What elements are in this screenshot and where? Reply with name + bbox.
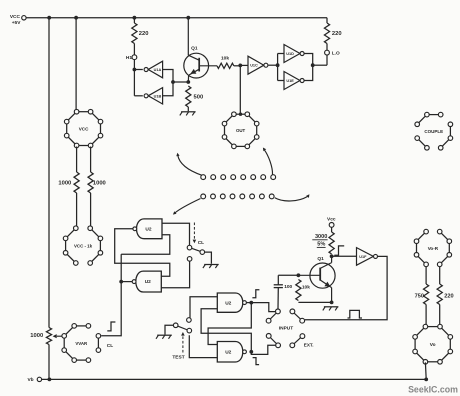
wire U1F output feedback: [305, 256, 387, 319]
arrow CL dashed (latch-A): [193, 223, 205, 247]
inverter U1E: [284, 72, 304, 90]
wire VCC to 1000 resistors: [77, 147, 91, 173]
svg-text:H1: H1: [126, 55, 132, 61]
wire Vcc to 3000: [331, 227, 333, 232]
NAND U2 latch-A bottom (mirrored): [132, 271, 161, 292]
IC COUPLE socket (octagon): [415, 112, 453, 150]
wire junction to Q1 emitter node: [173, 81, 188, 83]
pulse symbol square (feedback): [348, 310, 363, 318]
wire 1000 resistors to VCC-1k: [77, 193, 91, 226]
node junction latchB bottom output: [249, 350, 253, 354]
IC OUT socket (octagon): [222, 112, 259, 149]
svg-text:VCC: VCC: [79, 126, 89, 131]
node VCC +5V supply terminal: [10, 14, 26, 26]
ground TEST switch: [156, 335, 172, 339]
svg-text:U1E: U1E: [286, 79, 294, 83]
label CL strap: [107, 343, 113, 349]
wire latchB bottom lower input to TEST: [189, 335, 217, 357]
wire 750 to Vo: [425, 305, 427, 327]
wire base node to cap: [278, 274, 298, 276]
inverter U1B (points left): [144, 88, 163, 104]
node junction VCC IC drop: [74, 16, 78, 20]
wire L.O to 220: [326, 44, 328, 51]
wire latchB top out to S1: [251, 303, 275, 312]
svg-text:U1D: U1D: [286, 52, 294, 56]
wire split to U1D/U1E inputs: [278, 54, 284, 81]
pulse symbol rising (Q1 collector): [334, 246, 344, 255]
wire U1C output to split node: [268, 64, 277, 66]
svg-text:5%: 5%: [317, 242, 325, 248]
svg-text:VCC: VCC: [10, 14, 21, 20]
switch CL latch-A: [187, 245, 204, 261]
svg-text:220: 220: [139, 31, 149, 37]
IC Vo socket (octagon): [413, 324, 453, 364]
svg-text:CL: CL: [198, 240, 204, 246]
wire U1B right side to junction: [163, 82, 173, 96]
svg-text:U2: U2: [145, 227, 151, 233]
svg-text:L.O: L.O: [332, 50, 340, 56]
svg-text:1000: 1000: [30, 333, 43, 339]
svg-text:U1A: U1A: [154, 68, 162, 72]
ground latch-A switch: [203, 265, 219, 269]
transistor Q1 (top): [184, 18, 217, 82]
node junction latchB top output: [249, 301, 253, 305]
arrow row2 to latch: [173, 199, 201, 215]
switch S4 EXT: [290, 334, 314, 348]
wire U1E output to join: [304, 65, 312, 80]
inverter U1F: [357, 248, 378, 266]
svg-text:220: 220: [444, 293, 453, 299]
resistor 10k vertical: [296, 280, 310, 301]
node junction rail top: [47, 16, 51, 20]
wire latchB bottom out to S3: [251, 345, 275, 354]
IC VCC-1k socket (octagon): [63, 226, 102, 265]
svg-text:INPUT: INPUT: [279, 326, 293, 332]
svg-text:Q1: Q1: [317, 256, 324, 262]
wire latchA top upper input to CL switch: [162, 223, 190, 245]
wire 10k to U1C node: [234, 65, 241, 67]
wire latchB cross bottom-out to top-in: [201, 309, 251, 352]
svg-text:U2: U2: [225, 349, 231, 355]
node junction Q1 collector drop: [186, 16, 190, 20]
svg-text:100: 100: [284, 284, 292, 290]
node junction inverter outputs: [171, 80, 175, 84]
pin strip row 1: [201, 175, 276, 180]
resistor 750: [415, 284, 429, 305]
svg-text:OUT: OUT: [236, 128, 246, 133]
pot wiper arrow: [53, 334, 62, 338]
IC Vo-R socket (octagon): [414, 229, 451, 266]
pulse symbol rising (CL strap): [107, 322, 115, 331]
svg-text:U1C: U1C: [250, 64, 258, 68]
inverter U1C: [248, 56, 268, 74]
resistor 10k horizontal: [217, 56, 234, 69]
wire Vo to bottom rail: [424, 362, 427, 379]
node Vcc terminal (bottom): [327, 217, 336, 228]
svg-text:VVAR: VVAR: [75, 341, 88, 346]
wire Vo-R to 750: [425, 267, 427, 284]
svg-text:Vb: Vb: [27, 377, 33, 383]
svg-text:500: 500: [194, 95, 204, 101]
resistor 1000 on rail (pot): [30, 328, 51, 345]
resistor 220 left: [132, 18, 149, 44]
svg-text:Vo-R: Vo-R: [428, 246, 439, 251]
IC VVAR socket (octagon): [62, 324, 101, 363]
node junction U1D/U1E outputs: [311, 63, 315, 67]
svg-text:EXT.: EXT.: [304, 343, 314, 348]
svg-text:1000: 1000: [58, 180, 71, 186]
node junction U1D/U1E split: [276, 63, 280, 67]
arrow TEST dashed: [172, 332, 184, 360]
wire Vo-R to 220: [439, 267, 441, 284]
node junction U1C input: [238, 64, 242, 68]
node H1 terminal: [126, 55, 137, 61]
wire TEST common to ground: [165, 325, 173, 334]
watermark SeekIC.com: [408, 385, 458, 395]
svg-text:U2: U2: [225, 300, 231, 306]
pin strip row 2: [201, 194, 274, 199]
arrow row1 to upper-left: [176, 153, 202, 176]
svg-text:+5V: +5V: [12, 20, 21, 26]
resistor 3000 5%: [312, 232, 334, 254]
node Vb terminal: [27, 377, 41, 383]
svg-text:220: 220: [332, 31, 342, 37]
inverter U1D: [284, 45, 304, 63]
resistor 1000 left: [58, 172, 79, 193]
ground below 500: [180, 112, 196, 116]
ground Q1b emitter: [323, 307, 339, 311]
node junction Q1b emitter: [330, 301, 334, 305]
switch TEST: [173, 318, 191, 333]
wire 500 to ground: [187, 107, 189, 111]
wire left vertical rail: [48, 18, 50, 328]
node junction latchA bottom output: [119, 280, 123, 284]
inverter U1A (points left): [144, 61, 163, 78]
wire latchA cross top-out to bottom-in: [115, 229, 170, 276]
wire latchB cross top-out to bottom-in: [208, 303, 251, 345]
node junction 3000/Q1/U1F: [330, 254, 334, 258]
arrow row2 to Q1 area: [275, 194, 310, 201]
svg-text:U1F: U1F: [359, 255, 367, 259]
wire U1C node to gate: [240, 64, 248, 66]
NAND U2 latch-B bottom: [217, 342, 246, 363]
node L.O terminal: [325, 50, 340, 56]
wire latchA cross bottom-out to top-in: [121, 235, 170, 282]
svg-text:SeekIC.com: SeekIC.com: [408, 385, 458, 395]
node junction Vo bottom: [424, 378, 428, 382]
wire VCC IC top lead: [75, 18, 77, 111]
NAND U2 latch-B top: [217, 293, 246, 312]
pulse symbol rising (latchB top out): [252, 290, 259, 298]
arrow row1 to OUT: [263, 148, 273, 175]
resistor 220 right: [324, 18, 341, 44]
svg-text:Vo: Vo: [430, 342, 436, 348]
switch S1 INPUT upper: [266, 309, 280, 323]
wire H1 to inverters: [134, 60, 142, 96]
resistor 220 bottom: [437, 284, 454, 305]
node junction base/cap/10k: [297, 273, 301, 277]
IC VCC socket (octagon): [64, 109, 102, 147]
NAND U2 latch-A top (mirrored): [133, 219, 162, 239]
wire latchB top upper input to TEST: [190, 297, 217, 318]
svg-text:Q1: Q1: [191, 46, 198, 52]
wire bottom rail: [42, 378, 427, 380]
svg-text:U1B: U1B: [154, 94, 162, 98]
wire latchA output down to CL strap: [101, 282, 121, 336]
svg-text:U2: U2: [145, 279, 151, 285]
label INPUT: [279, 326, 293, 332]
switch S2 INPUT upper-right: [290, 309, 305, 323]
wire latchB top output node: [246, 302, 251, 304]
node junction U1A input: [133, 68, 137, 72]
node junction rail bottom: [48, 378, 52, 382]
node dot OUT top pin: [239, 113, 242, 116]
node junction Q1 emitter/500: [186, 80, 190, 84]
wire H1 junction to U1A: [134, 69, 142, 71]
transistor Q1 (bottom): [298, 256, 335, 303]
wire join to L.O terminal: [313, 55, 327, 65]
wire latchA bottom lower input to switch: [161, 261, 189, 287]
wire 220 to Vo: [439, 305, 441, 327]
svg-text:TEST: TEST: [172, 354, 184, 360]
wire 220 to H1: [133, 44, 135, 55]
switch S3 INPUT lower: [266, 334, 280, 348]
svg-text:VCC - 1k: VCC - 1k: [74, 243, 93, 248]
svg-text:COUPLE: COUPLE: [424, 129, 443, 134]
svg-text:750: 750: [415, 293, 424, 299]
wire emitter rail left: [298, 301, 331, 303]
wire top VCC rail horizontal: [26, 17, 327, 19]
wire rail below pot: [48, 345, 50, 380]
wire U1C node down to OUT: [239, 65, 241, 113]
resistor 500: [186, 86, 203, 107]
wire U1D output to join: [304, 54, 312, 66]
svg-text:10k: 10k: [221, 56, 229, 62]
wire CL switch to ground: [205, 252, 212, 264]
svg-text:3000: 3000: [315, 234, 327, 240]
wire junction to U1F: [332, 255, 357, 257]
node junction 220 drop: [133, 16, 137, 20]
svg-text:CL: CL: [107, 343, 113, 349]
svg-text:Vcc: Vcc: [327, 217, 336, 223]
pulse symbol falling (latchB bottom out): [253, 358, 260, 365]
capacitor 100: [274, 275, 293, 309]
svg-text:1000: 1000: [93, 180, 106, 186]
resistor 1000 right: [88, 172, 106, 193]
svg-text:10k: 10k: [302, 285, 310, 291]
wire U1A right side to junction: [163, 70, 173, 83]
